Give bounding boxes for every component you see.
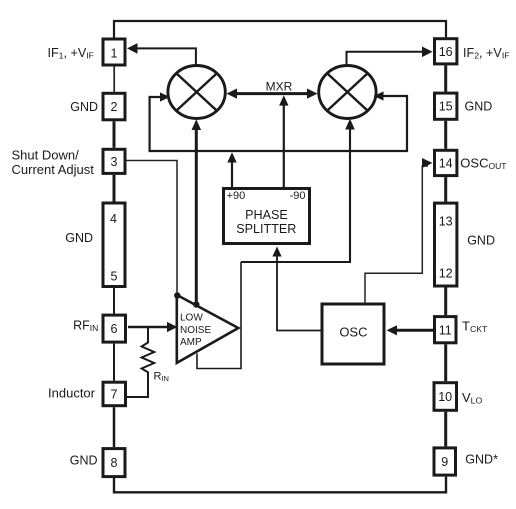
pin 14 box (435, 150, 457, 175)
svg-text:+90: +90 (227, 190, 246, 202)
wire: MXR line between mixers with both arrowheads (233, 92, 311, 95)
pin 16 box (435, 39, 457, 64)
svg-text:5: 5 (111, 270, 118, 284)
pin 9 box (434, 448, 456, 475)
svg-text:6: 6 (111, 322, 118, 336)
svg-text:7: 7 (111, 388, 118, 402)
svg-text:-90: -90 (290, 190, 306, 202)
wire: IC outline top edge pin1 to pin16 (114, 21, 446, 38)
wire: pin 11 to OSC (392, 329, 433, 332)
svg-text:Inductor: Inductor (48, 386, 96, 401)
wire: LNA output to left mixer RF input (195, 124, 198, 304)
pin 3 box (103, 149, 125, 173)
wire: pin15-pin14 stub (444, 121, 447, 149)
svg-text:OSC: OSC (339, 325, 367, 340)
wire: pin16-pin15 stub (444, 65, 447, 91)
wire: pin11-pin10 stub (444, 344, 447, 381)
svg-text:4: 4 (110, 212, 117, 226)
svg-text:MXR: MXR (266, 80, 293, 94)
wire: +90 loop (left mixer left input, right mixer right input) (150, 96, 407, 151)
svg-text:1: 1 (111, 47, 118, 61)
svg-text:13: 13 (439, 215, 453, 229)
svg-text:GND: GND (465, 100, 493, 114)
pin 15 box (435, 93, 457, 119)
wire: pin3 to LNA shutdown input (127, 161, 178, 294)
junction dot on LNA hypotenuse (193, 301, 199, 307)
svg-text:15: 15 (439, 100, 453, 114)
svg-text:GND: GND (70, 100, 98, 114)
mixer M2 (right) circle with X (319, 66, 376, 119)
wire: -90 output of phase splitter up to MXR line (283, 100, 285, 187)
resistor RIN (127, 328, 154, 397)
pin 7 box (103, 382, 126, 406)
svg-text:3: 3 (111, 155, 118, 169)
wire: right mixer output to pin 16 (347, 52, 429, 66)
wire: LNA output to right mixer RF input (241, 124, 350, 262)
svg-text:2: 2 (111, 100, 118, 114)
wire: pin14-pin13 stub (444, 177, 447, 202)
wire: OSC output to phase splitter input (277, 252, 321, 331)
svg-text:14: 14 (439, 157, 453, 171)
svg-text:9: 9 (441, 455, 448, 469)
svg-text:NOISE: NOISE (180, 325, 211, 336)
svg-text:Shut Down/: Shut Down/ (12, 147, 80, 162)
svg-text:SPLITTER: SPLITTER (236, 222, 296, 236)
wire: pin6-pin7 stub (113, 344, 115, 381)
wire: pin6 to LNA input (128, 326, 172, 329)
pin 6 box (103, 315, 126, 342)
wire: LNA apex feedback loop (197, 262, 241, 369)
pin 4/5 box (103, 203, 125, 287)
svg-text:11: 11 (439, 324, 452, 338)
svg-text:GND: GND (65, 231, 93, 245)
OSC box U3 (322, 304, 384, 364)
svg-text:Current Adjust: Current Adjust (12, 162, 95, 177)
wire: left mixer output to pin 1 (131, 48, 196, 66)
wire: pin2-pin3 stub (113, 121, 116, 148)
wire: pin5-pin6 stub (113, 288, 115, 314)
svg-text:16: 16 (439, 45, 453, 59)
pin 8 box (103, 449, 125, 477)
svg-text:LOW: LOW (180, 312, 203, 323)
LNA triangle U1 (177, 295, 239, 363)
wire: IC outline bottom edge pin8 to pin9 (114, 477, 446, 493)
junction dot at LNA top-left (174, 292, 180, 298)
svg-text:AMP: AMP (180, 337, 202, 348)
wire: pin10-pin9 stub (444, 412, 447, 447)
wire: OSC to pin 14 OSC OUT (365, 166, 428, 303)
wire: pin12-pin11 stub (444, 288, 447, 316)
pin 13/12 box (435, 203, 457, 286)
svg-text:8: 8 (111, 456, 118, 470)
svg-text:12: 12 (439, 267, 453, 281)
pin 1 box (103, 39, 125, 65)
svg-text:GND*: GND* (465, 453, 498, 467)
phase splitter box U2 (224, 189, 310, 244)
wire: pin1-pin2 stub (113, 67, 115, 92)
svg-text:PHASE: PHASE (245, 208, 288, 222)
svg-text:GND: GND (467, 234, 495, 248)
wire: pin7-pin8 stub (113, 407, 116, 447)
pin 10 box (434, 383, 457, 411)
wire: +90 output of phase splitter up to loop line (231, 160, 233, 187)
mixer M1 (left) circle with X (168, 66, 225, 119)
svg-text:10: 10 (438, 390, 452, 404)
pin 2 box (103, 93, 125, 120)
svg-text:GND: GND (70, 454, 98, 468)
wire: pin3-pin4 stub (113, 175, 116, 202)
pin 11 box (435, 317, 457, 343)
